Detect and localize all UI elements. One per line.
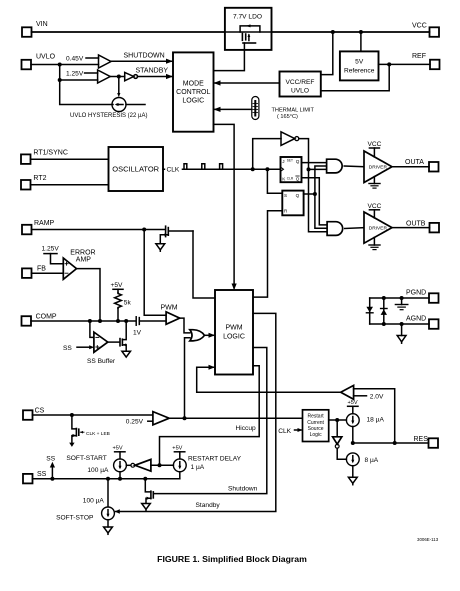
wire overcurrent to OR gate <box>185 338 190 419</box>
wire UVLO block to mode control <box>214 80 280 85</box>
svg-text:VIN: VIN <box>36 21 48 28</box>
transistor Q2 comp clamp <box>108 321 131 357</box>
svg-text:OUTA: OUTA <box>405 159 424 166</box>
wire SS rail <box>33 477 180 481</box>
wire overcurrent output to restart logic <box>169 416 302 420</box>
comparator overcurrent 0.25V <box>126 412 169 426</box>
transistor Q4 SS shutdown <box>142 479 154 511</box>
svg-text:CONTROL: CONTROL <box>176 89 210 96</box>
wire ramp transistor to PWM logic <box>193 231 215 298</box>
wire AND B to driver B <box>345 227 364 230</box>
svg-text:+5V: +5V <box>348 400 358 406</box>
pin VCC <box>412 23 439 37</box>
wire SHUTDOWN <box>111 53 173 64</box>
gate OR pwm <box>190 330 215 341</box>
wire CLK to phase inverter <box>253 139 281 170</box>
svg-text:J: J <box>282 159 284 164</box>
svg-text:DRIVER: DRIVER <box>369 226 388 232</box>
svg-text:5V: 5V <box>355 59 364 66</box>
pin REF <box>412 53 440 69</box>
svg-text:Shutdown: Shutdown <box>228 485 258 492</box>
svg-text:2.0V: 2.0V <box>370 394 384 401</box>
svg-text:SOFT-STOP: SOFT-STOP <box>56 514 94 521</box>
svg-text:VCC/REF: VCC/REF <box>286 79 315 86</box>
svg-text:1.25V: 1.25V <box>66 71 84 78</box>
svg-text:RES: RES <box>414 436 429 443</box>
svg-text:+5V: +5V <box>111 282 124 289</box>
current source soft-start 100uA <box>66 446 126 479</box>
wire CS net <box>33 413 153 417</box>
wire FF1 Qbar to AND B <box>302 178 328 225</box>
svg-text:VCC: VCC <box>367 203 381 210</box>
transistor Q3 CLK+LEB blanking <box>69 415 110 447</box>
wire inverter output down to AND gates <box>299 139 327 232</box>
svg-text:LOGIC: LOGIC <box>223 334 245 341</box>
wire Hiccup <box>160 366 260 466</box>
wire RAMP to PWM comparator <box>144 230 166 316</box>
comparator shutdown 0.45V <box>66 55 111 68</box>
block MODE CONTROL LOGIC <box>173 52 214 131</box>
svg-text:( 165°C): ( 165°C) <box>277 114 298 120</box>
svg-text:1.25V: 1.25V <box>42 246 60 253</box>
ground below soft-stop <box>104 520 113 535</box>
wire LDO gate to mode control logic <box>214 50 245 71</box>
wire OUTA <box>392 166 429 168</box>
pin RES <box>414 436 439 448</box>
pin PGND <box>406 290 439 303</box>
svg-text:8 µA: 8 µA <box>365 457 379 464</box>
svg-text:Standby: Standby <box>196 502 221 509</box>
regulator 5V Reference <box>340 51 379 80</box>
svg-text:THERMAL LIMIT: THERMAL LIMIT <box>272 108 315 114</box>
wire FF1 Q to AND A <box>302 162 327 164</box>
svg-text:SET: SET <box>287 158 293 162</box>
wire AND A to driver A <box>344 165 364 168</box>
pin OUTB <box>406 220 439 232</box>
svg-text:RESTART DELAY: RESTART DELAY <box>188 455 242 462</box>
pin UVLO <box>22 54 56 70</box>
wire VIN to VCC rail <box>32 31 430 33</box>
inverter standby <box>110 72 137 80</box>
wire CLK to SR flip-flop S input <box>267 169 282 193</box>
svg-text:UVLO HYSTERESIS (22 µA): UVLO HYSTERESIS (22 µA) <box>70 113 147 119</box>
svg-text:FIGURE 1. Simplified Block Dia: FIGURE 1. Simplified Block Diagram <box>157 554 307 564</box>
wire SR reset from PWM logic <box>253 211 282 297</box>
svg-text:CLK + LEB: CLK + LEB <box>86 431 110 437</box>
svg-text:Restart: Restart <box>308 414 325 420</box>
figure caption <box>157 554 307 564</box>
flip-flop U5 JK <box>281 157 302 182</box>
ground analog at AGND <box>397 324 406 343</box>
svg-text:+5V: +5V <box>172 446 182 452</box>
current source restart delay 1uA <box>172 446 241 479</box>
comparator PWM <box>161 304 180 324</box>
wire PWM comparator to OR gate <box>180 318 190 333</box>
svg-text:Source: Source <box>308 426 324 432</box>
svg-text:OUTB: OUTB <box>406 220 426 227</box>
svg-text:Logic: Logic <box>310 432 322 438</box>
ground chassis at PGND <box>395 298 407 310</box>
svg-text:100 µA: 100 µA <box>87 467 109 474</box>
wire UVLO net <box>31 63 113 105</box>
svg-text:0.25V: 0.25V <box>126 418 144 425</box>
pin CS <box>23 408 45 420</box>
svg-text:+5V: +5V <box>113 446 123 452</box>
wire 5V reference to REF pin <box>379 63 431 65</box>
current source UVLO hysteresis 22uA <box>70 77 147 120</box>
svg-text:Current: Current <box>307 420 324 426</box>
svg-text:UVLO: UVLO <box>291 88 309 95</box>
svg-text:S: S <box>284 193 287 198</box>
gate AND B <box>327 222 343 236</box>
gate AND A <box>327 159 343 173</box>
svg-text:OSCILLATOR: OSCILLATOR <box>112 165 159 174</box>
buffer driver A <box>364 141 392 188</box>
svg-text:Hiccup: Hiccup <box>236 425 256 432</box>
svg-text:RAMP: RAMP <box>34 220 55 227</box>
svg-text:COMP: COMP <box>36 314 57 321</box>
wire RAMP net <box>32 228 166 232</box>
wire REF to UVLO block <box>321 64 389 90</box>
current source soft-stop 100uA <box>56 479 114 522</box>
wire CLK to restart logic <box>278 428 302 435</box>
svg-text:LOGIC: LOGIC <box>182 98 204 105</box>
ground below 8uA <box>348 466 357 485</box>
inverter clock phase U4 <box>281 132 299 146</box>
wire AGND rail <box>370 322 429 326</box>
wire RES rail <box>351 427 429 446</box>
svg-text:PGND: PGND <box>406 290 426 297</box>
thermal sensor thermometer <box>252 97 315 121</box>
svg-text:VCC: VCC <box>412 23 427 30</box>
svg-text:PWM: PWM <box>225 325 242 332</box>
svg-text:0.45V: 0.45V <box>66 56 84 63</box>
svg-text:100 µA: 100 µA <box>83 498 105 505</box>
block PWM LOGIC <box>215 290 253 375</box>
pin RT2 <box>21 175 109 190</box>
svg-text:CS: CS <box>35 408 45 415</box>
flip-flop U6 SR <box>282 191 303 216</box>
regulator 7.7V LDO <box>32 8 430 50</box>
pin FB <box>22 266 63 278</box>
buffer driver B <box>364 203 392 250</box>
svg-text:SS: SS <box>46 455 55 462</box>
svg-text:PWM: PWM <box>161 304 178 311</box>
wire 2.0V comparator to PWM logic <box>197 365 341 393</box>
node REF branch junction <box>387 62 391 66</box>
wire COMP rail <box>31 319 136 323</box>
node 5V ref supply junction <box>359 30 363 34</box>
inverter restart to soft-start <box>126 459 173 471</box>
current source 8uA <box>346 453 378 466</box>
svg-text:STANDBY: STANDBY <box>136 68 169 75</box>
wire error amp output to COMP <box>77 269 101 321</box>
wire thermal limit to mode control <box>214 107 252 112</box>
svg-text:CLK: CLK <box>278 428 291 435</box>
wire CLK line <box>163 164 281 174</box>
svg-text:Q: Q <box>296 176 300 181</box>
svg-text:SS: SS <box>63 345 72 352</box>
svg-text:SS Buffer: SS Buffer <box>87 358 116 365</box>
diode D1 substrate <box>366 298 373 324</box>
pin SS <box>23 471 47 483</box>
wire VCC to UVLO block <box>321 32 333 75</box>
svg-text:Reference: Reference <box>344 68 375 75</box>
transistor Q1 ramp discharge <box>156 226 193 251</box>
node VCC branch junction <box>331 30 335 34</box>
capacitor 1V offset <box>133 317 166 337</box>
pin RAMP <box>22 220 55 234</box>
svg-text:1 µA: 1 µA <box>191 464 205 471</box>
wire PGND rail <box>370 296 429 300</box>
wire OUTB <box>392 227 430 229</box>
op-amp error amplifier <box>63 250 95 280</box>
svg-text:SHUTDOWN: SHUTDOWN <box>124 53 165 60</box>
svg-text:SS: SS <box>37 471 47 478</box>
svg-text:FB: FB <box>37 266 46 273</box>
reference 1.25V error amp <box>42 246 64 264</box>
svg-text:SOFT-START: SOFT-START <box>66 455 106 462</box>
svg-text:RT2: RT2 <box>33 175 46 182</box>
wire STANDBY <box>136 68 174 79</box>
svg-text:3006E-113: 3006E-113 <box>417 537 439 542</box>
svg-text:AMP: AMP <box>76 256 92 263</box>
buffer restart gate <box>333 420 347 459</box>
svg-text:Q: Q <box>296 193 300 198</box>
wire Shutdown <box>153 348 266 494</box>
svg-text:Q: Q <box>296 159 300 164</box>
svg-text:5k: 5k <box>124 300 132 307</box>
pin RT1/SYNC <box>21 149 109 164</box>
pin VIN <box>22 21 48 37</box>
svg-text:UVLO: UVLO <box>36 54 56 61</box>
svg-text:MODE: MODE <box>183 81 204 88</box>
doc number <box>417 537 439 542</box>
wire restart logic to 18uA <box>329 418 347 422</box>
comparator standby 1.25V <box>66 70 110 83</box>
diode D2 substrate <box>381 298 387 324</box>
svg-text:7.7V LDO: 7.7V LDO <box>233 14 262 21</box>
buffer SS clamp <box>63 321 116 365</box>
block restart current source logic <box>303 410 329 442</box>
block VCC/REF UVLO U3 <box>280 72 321 97</box>
svg-text:RT1/SYNC: RT1/SYNC <box>33 149 68 156</box>
svg-text:VCC: VCC <box>367 141 381 148</box>
svg-text:DRIVER: DRIVER <box>369 165 388 171</box>
pin OUTA <box>405 159 439 172</box>
node SS stub <box>46 455 55 478</box>
comparator 2.0V reset <box>341 385 395 443</box>
svg-text:REF: REF <box>412 53 426 60</box>
svg-text:CLR: CLR <box>287 176 294 180</box>
svg-text:18 µA: 18 µA <box>367 416 385 423</box>
block OSCILLATOR <box>109 147 164 191</box>
resistor 5k pullup <box>111 282 132 321</box>
svg-text:AGND: AGND <box>406 316 426 323</box>
current source 18uA <box>346 400 384 426</box>
pin AGND <box>406 316 439 329</box>
wire mode control to PWM logic <box>214 124 237 290</box>
pin COMP <box>22 314 57 326</box>
wire FF2 Q to AND gates <box>304 166 328 228</box>
svg-text:1V: 1V <box>133 330 142 337</box>
wire VCC to 5V reference <box>360 32 362 51</box>
svg-text:CLK: CLK <box>167 167 180 174</box>
wire Standby <box>115 313 276 513</box>
